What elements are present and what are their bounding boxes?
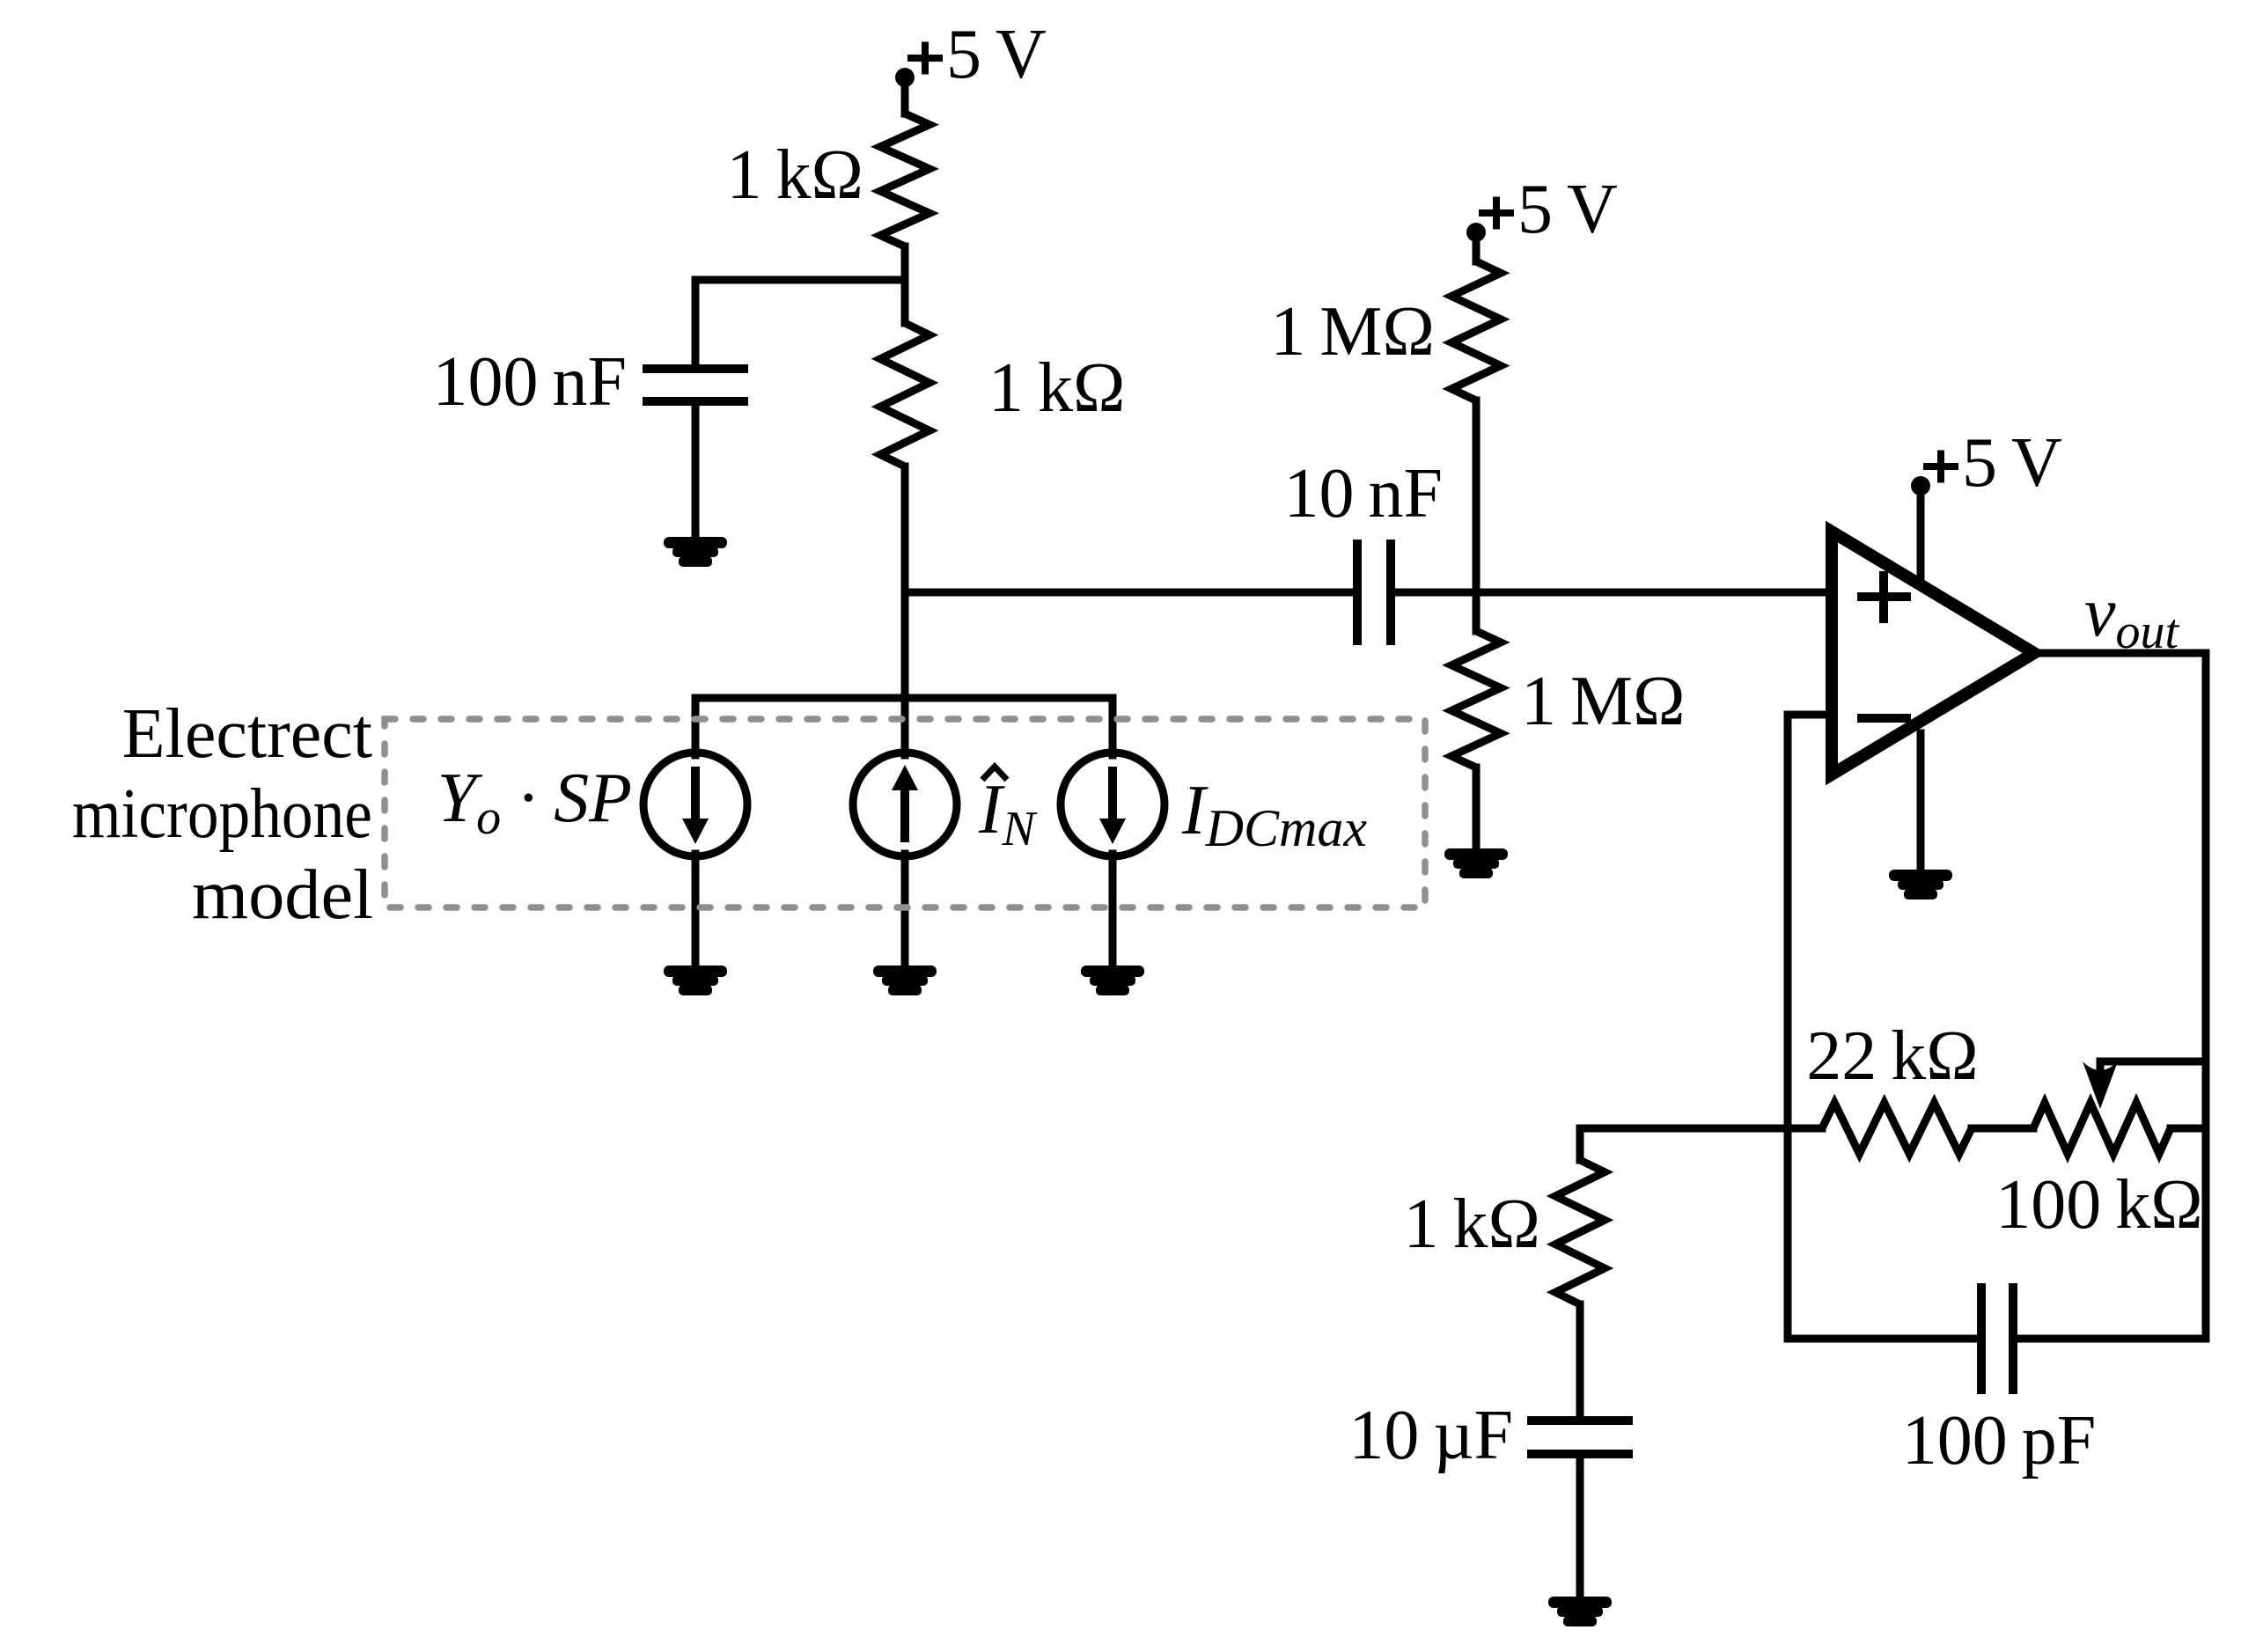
svg-text:5 V: 5 V [1962,424,2062,502]
svg-text:5 V: 5 V [1517,171,1618,248]
svg-text:1 kΩ: 1 kΩ [988,349,1125,427]
svg-text:1 MΩ: 1 MΩ [1270,293,1435,371]
svg-text:10 nF: 10 nF [1283,455,1443,532]
svg-text:100 pF: 100 pF [1902,1402,2097,1479]
svg-text:model: model [192,856,373,934]
svg-text:100 kΩ: 100 kΩ [1995,1166,2202,1244]
svg-text:1 kΩ: 1 kΩ [1404,1186,1540,1263]
svg-text:1 kΩ: 1 kΩ [727,136,863,214]
svg-text:IN: IN [978,771,1038,856]
svg-text:5 V: 5 V [946,16,1047,93]
svg-text:10 µF: 10 µF [1348,1397,1513,1474]
svg-text:Yo · SP: Yo · SP [437,760,632,845]
svg-text:100 nF: 100 nF [432,343,627,421]
svg-text:microphone: microphone [72,775,372,853]
svg-text:1 MΩ: 1 MΩ [1521,663,1686,740]
svg-text:vout: vout [2084,574,2180,659]
svg-text:Electrect: Electrect [122,695,372,773]
svg-text:22 kΩ: 22 kΩ [1806,1017,1978,1095]
svg-text:IDCmax: IDCmax [1181,772,1367,857]
